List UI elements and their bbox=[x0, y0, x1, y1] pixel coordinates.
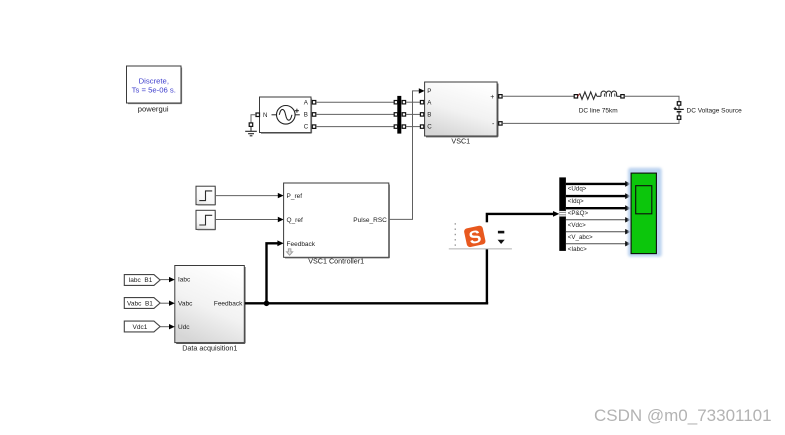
From tag Vabc B1 bbox=[124, 298, 160, 309]
wire phase A source to bus bbox=[316, 101, 395, 103]
wire step2 to Q_ref bbox=[216, 219, 279, 221]
wire Vdc to scope (thin) bbox=[566, 219, 626, 221]
DC voltage source symbol bbox=[674, 105, 684, 116]
arrowhead P&Q bbox=[625, 205, 631, 211]
svg-text:<Idq>: <Idq> bbox=[568, 198, 584, 205]
label powergui bbox=[138, 105, 169, 114]
svg-text:Vabc B1: Vabc B1 bbox=[127, 301, 153, 308]
label V_abc bbox=[568, 234, 593, 241]
ground port bbox=[249, 123, 253, 127]
inductor (DC line) bbox=[601, 91, 621, 97]
thick branch up to controller Feedback bbox=[267, 243, 279, 303]
label Udq bbox=[568, 186, 587, 193]
dotted guide line bbox=[454, 223, 456, 246]
step block P_ref bbox=[196, 186, 216, 205]
wire Udq to scope (thick) bbox=[566, 183, 626, 185]
label VSC1 bbox=[451, 137, 470, 146]
VSC1 port + out bbox=[499, 95, 502, 98]
wire Vdc1 tag to block bbox=[160, 326, 169, 328]
From tag Vdc1 bbox=[124, 321, 160, 332]
arrowhead Q_ref bbox=[278, 217, 284, 222]
powergui block bbox=[127, 66, 182, 104]
arrowhead into bus selector bbox=[553, 211, 559, 217]
arrowhead Idq bbox=[625, 193, 631, 199]
wire phase B source to bus bbox=[316, 113, 395, 115]
svg-text:DC Voltage Source: DC Voltage Source bbox=[687, 108, 743, 115]
port C out bbox=[312, 125, 316, 128]
svg-text:<Udq>: <Udq> bbox=[568, 186, 587, 193]
svg-text:Vdc1: Vdc1 bbox=[133, 324, 148, 331]
svg-text:Q_ref: Q_ref bbox=[287, 217, 303, 224]
port N bbox=[256, 113, 260, 117]
label Iabc scope bbox=[568, 246, 587, 253]
down triangle mark bbox=[498, 240, 505, 244]
arrowhead Vdc bbox=[625, 217, 631, 222]
svg-text:VSC1: VSC1 bbox=[451, 137, 470, 146]
scope screen bbox=[636, 186, 652, 214]
label Data acquisition1 bbox=[182, 343, 237, 352]
three-phase AC voltage source block bbox=[260, 97, 312, 133]
svg-text:P: P bbox=[427, 88, 431, 95]
svg-text:P_ref: P_ref bbox=[287, 193, 303, 200]
wire Pulse_RSC to P bbox=[389, 91, 419, 220]
label DC line 75km bbox=[579, 107, 618, 114]
arrowhead V_abc bbox=[625, 229, 631, 234]
label Vdc bbox=[568, 222, 586, 229]
scope selection highlight bbox=[628, 168, 662, 257]
wire phase C source to bus bbox=[316, 126, 395, 128]
arrowhead Iabc bbox=[169, 277, 175, 282]
step block Q_ref bbox=[196, 210, 216, 229]
thick wire up to bus selector bbox=[487, 214, 554, 303]
bus left port A bbox=[394, 101, 397, 104]
ground symbol bbox=[245, 126, 257, 135]
label DC Voltage Source bbox=[687, 108, 743, 115]
label P&Q bbox=[568, 210, 589, 217]
port B out bbox=[312, 113, 316, 117]
scope block bbox=[631, 173, 656, 254]
bus selector input port marker bbox=[559, 211, 566, 217]
label VSC1 Controller1 bbox=[308, 256, 364, 265]
bus right port B bbox=[402, 113, 405, 116]
From tag Iabc B1 bbox=[124, 275, 160, 286]
annotation white box bbox=[449, 222, 512, 249]
Simulink S badge bbox=[464, 225, 487, 249]
DC line right port bbox=[621, 95, 624, 98]
wire phase C bus to VSC1 bbox=[406, 126, 421, 128]
DC source top port bbox=[677, 102, 681, 106]
resistor (DC line) bbox=[578, 92, 601, 99]
wire DC line to DC source bbox=[624, 96, 679, 101]
wire Iabc to scope (thin) bbox=[566, 243, 626, 245]
DC source bottom port bbox=[677, 116, 681, 120]
svg-text:powergui: powergui bbox=[138, 105, 169, 114]
Data acquisition1 block bbox=[175, 266, 245, 344]
bus bar B1 bbox=[397, 96, 401, 134]
wire P&Q to scope (thick) bbox=[566, 207, 626, 209]
bus right port C bbox=[402, 125, 405, 128]
arrowhead Vdc1 bbox=[169, 324, 175, 329]
VSC1 port B in bbox=[420, 113, 423, 116]
arrowhead Vabc bbox=[169, 301, 175, 306]
svg-text:Ts = 5e-06 s.: Ts = 5e-06 s. bbox=[132, 86, 176, 95]
wire phase A bus to VSC1 bbox=[406, 101, 421, 103]
VSC1 Controller1 block bbox=[284, 183, 390, 258]
physical-signal down arrow icon bbox=[286, 249, 292, 255]
VSC1 block bbox=[425, 82, 498, 137]
arrowhead into P bbox=[419, 88, 425, 93]
svg-text:Discrete,: Discrete, bbox=[139, 76, 169, 85]
bus left port C bbox=[394, 125, 397, 128]
DC line left port bbox=[574, 95, 577, 98]
svg-text:Feedback: Feedback bbox=[287, 241, 316, 248]
arrowhead P_ref bbox=[278, 193, 284, 198]
svg-text:Iabc B1: Iabc B1 bbox=[129, 277, 153, 284]
svg-text:+: + bbox=[490, 94, 494, 101]
svg-text:<Iabc>: <Iabc> bbox=[568, 246, 587, 253]
VSC1 port - out bbox=[499, 122, 502, 125]
svg-text:Pulse_RSC: Pulse_RSC bbox=[353, 217, 387, 224]
port A out bbox=[312, 101, 316, 105]
arrowhead Udq bbox=[625, 181, 631, 187]
wire V_abc to scope (thin) bbox=[566, 231, 626, 233]
watermark bbox=[594, 406, 773, 426]
minus mark bbox=[498, 231, 504, 234]
svg-text:N: N bbox=[263, 112, 267, 119]
svg-text:<V_abc>: <V_abc> bbox=[568, 234, 593, 241]
svg-text:C: C bbox=[427, 124, 432, 131]
wire Idq to scope (thick) bbox=[566, 195, 626, 197]
svg-text:Vabc: Vabc bbox=[178, 301, 193, 308]
svg-text:CSDN @m0_73301101: CSDN @m0_73301101 bbox=[594, 406, 772, 425]
svg-text:Udc: Udc bbox=[178, 324, 190, 331]
svg-text:B: B bbox=[304, 112, 308, 119]
svg-text:<P&Q>: <P&Q> bbox=[568, 210, 589, 217]
bus selector bar bbox=[559, 177, 566, 251]
arrowhead Feedback bbox=[277, 240, 283, 246]
bus right port A bbox=[402, 101, 405, 104]
svg-text:<Vdc>: <Vdc> bbox=[568, 222, 586, 229]
svg-text:Iabc: Iabc bbox=[178, 277, 191, 284]
svg-text:DC line 75km: DC line 75km bbox=[579, 107, 618, 114]
junction dot bbox=[264, 301, 270, 307]
bus left port B bbox=[394, 113, 397, 116]
label Idq bbox=[568, 198, 584, 205]
wire step1 to P_ref bbox=[216, 195, 279, 197]
VSC1 port A in bbox=[420, 101, 423, 104]
arrowhead Iabc scope bbox=[625, 241, 631, 246]
wire VSC1 + to DC line bbox=[502, 95, 574, 97]
wire N to ground bbox=[251, 115, 256, 123]
svg-text:C: C bbox=[304, 124, 309, 131]
svg-text:Data acquisition1: Data acquisition1 bbox=[182, 343, 237, 352]
svg-text:B: B bbox=[427, 112, 431, 119]
wire Vabc tag to block bbox=[160, 302, 169, 304]
wire phase B bus to VSC1 bbox=[406, 113, 421, 115]
wire Iabc tag to block bbox=[160, 279, 169, 281]
VSC1 port C in bbox=[420, 125, 423, 128]
svg-text:VSC1 Controller1: VSC1 Controller1 bbox=[308, 256, 364, 265]
svg-text:Feedback: Feedback bbox=[214, 301, 243, 308]
wire DC source to VSC1 - bbox=[502, 119, 679, 123]
thick feedback wire horizontal bbox=[245, 302, 488, 304]
